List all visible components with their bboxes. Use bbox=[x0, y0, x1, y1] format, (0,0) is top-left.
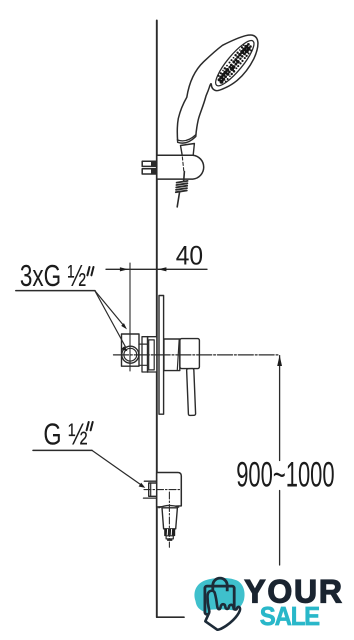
bracket screw prong upper bbox=[142, 161, 156, 166]
wall line bbox=[156, 21, 158, 618]
mixer connector bottom bbox=[139, 364, 148, 366]
spray nozzle dots bbox=[218, 43, 253, 84]
outlet tip bbox=[166, 536, 173, 539]
hidden hose line in bracket (dashed) bbox=[182, 152, 184, 176]
horizontal centerline bbox=[114, 354, 280, 356]
outlet nut facet line bbox=[150, 483, 152, 496]
label G half underline bbox=[33, 449, 92, 451]
valve body seam bbox=[177, 339, 179, 370]
shower spray face bbox=[211, 36, 259, 90]
leader arrow 1 bbox=[121, 323, 127, 329]
logo hand palm (white fill erase) bbox=[205, 609, 240, 630]
leader line 2 bbox=[95, 291, 126, 347]
svg-text:SALE: SALE bbox=[260, 602, 320, 631]
inlet port inner circle bbox=[124, 348, 137, 361]
svg-text:3xG ½: 3xG ½ bbox=[20, 259, 86, 293]
mixer gasket plate bbox=[142, 337, 157, 372]
valve body front bbox=[164, 339, 180, 371]
outlet shoulder arc bbox=[159, 505, 179, 507]
outlet elbow body bbox=[157, 473, 182, 508]
label 3xG underline bbox=[16, 290, 95, 292]
outlet union nut bbox=[149, 483, 157, 496]
extension line x130 (40 dim + circle centerline) bbox=[129, 263, 131, 371]
hand shower wand and head outline bbox=[177, 35, 258, 143]
hose spring coil bbox=[176, 181, 188, 192]
leader line 1 bbox=[95, 291, 125, 327]
outlet nut top line bbox=[144, 480, 156, 482]
logo shopping bag bbox=[205, 586, 234, 614]
svg-text:G ½: G ½ bbox=[43, 416, 87, 451]
logo blob bbox=[194, 578, 244, 614]
arrow left (40) bbox=[120, 267, 128, 271]
prime marks for G half label bbox=[87, 422, 89, 430]
mixer inner plate bbox=[149, 340, 155, 370]
mixer connector top bbox=[139, 343, 148, 345]
mixer gasket inner edge bbox=[147, 337, 149, 372]
shower wall bracket bbox=[157, 155, 204, 179]
logo bag handle bbox=[213, 578, 227, 591]
outlet nut bottom line bbox=[144, 497, 157, 499]
outlet aerator bbox=[165, 529, 175, 535]
leader arrow 2 bbox=[121, 346, 128, 351]
vertical dimension line 900-1000 lower bbox=[279, 491, 281, 566]
vertical dimension line 900-1000 upper bbox=[279, 356, 281, 461]
inlet port outer circle bbox=[122, 346, 139, 363]
escutcheon flange bbox=[159, 296, 164, 415]
prime marks for 3xG label bbox=[87, 267, 94, 430]
outlet cone bbox=[162, 508, 177, 529]
arrow up (900-1000) bbox=[277, 355, 282, 366]
leader line G half bbox=[92, 450, 143, 486]
wand hose nut arc bbox=[177, 135, 196, 141]
outlet vertical centerline bbox=[168, 492, 170, 547]
logo hand outline bbox=[205, 591, 240, 630]
mixer handle bbox=[180, 339, 200, 369]
dimension line 40 bbox=[106, 268, 207, 270]
svg-text:40: 40 bbox=[176, 241, 203, 270]
mixer rough-in body bbox=[122, 334, 140, 366]
handle lever bbox=[187, 368, 196, 415]
text 40 bbox=[20, 241, 335, 495]
outlet tip nub bbox=[167, 539, 172, 541]
wand collar bbox=[181, 144, 195, 156]
bracket screw prong lower bbox=[142, 169, 156, 174]
arrow right (40) bbox=[158, 267, 167, 271]
svg-text:900~1000: 900~1000 bbox=[236, 457, 334, 495]
floor line bbox=[157, 616, 184, 618]
outlet horizontal centerline bbox=[144, 489, 181, 491]
leader arrow G half bbox=[139, 483, 146, 488]
hose line bbox=[183, 172, 186, 181]
